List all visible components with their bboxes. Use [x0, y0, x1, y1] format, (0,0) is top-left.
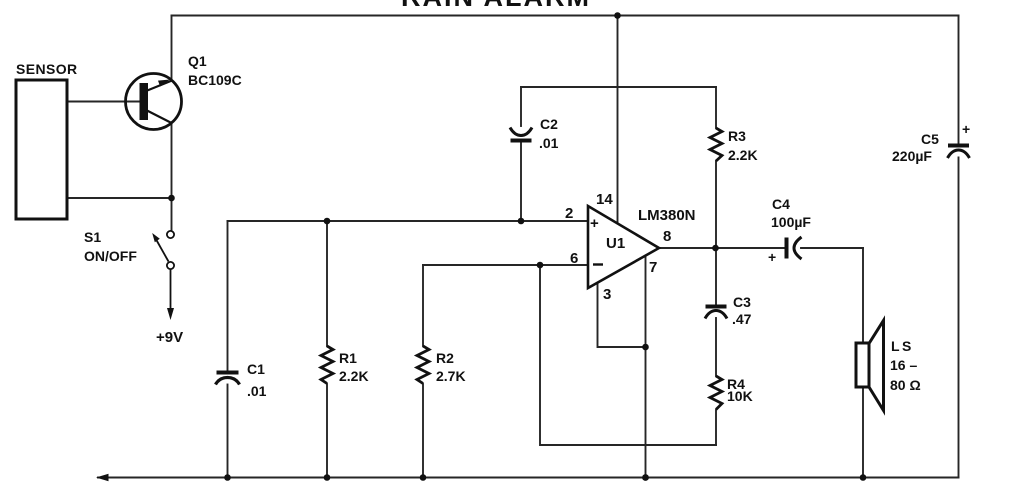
svg-text:C1: C1 [247, 361, 265, 377]
svg-text:+9V: +9V [156, 329, 183, 346]
svg-text:C4: C4 [772, 196, 790, 212]
svg-text:3: 3 [603, 286, 611, 303]
svg-text:80 Ω: 80 Ω [890, 377, 921, 393]
svg-text:2.2K: 2.2K [728, 147, 758, 163]
svg-text:.01: .01 [539, 135, 559, 151]
svg-text:U1: U1 [606, 235, 625, 252]
svg-text:10K: 10K [727, 388, 753, 404]
svg-text:R2: R2 [436, 350, 454, 366]
svg-text:RAIN ALARM: RAIN ALARM [401, 0, 591, 12]
svg-text:.01: .01 [247, 383, 267, 399]
svg-text:2.2K: 2.2K [339, 368, 369, 384]
svg-text:BC109C: BC109C [188, 72, 242, 88]
svg-text:C2: C2 [540, 116, 558, 132]
svg-text:6: 6 [570, 250, 578, 267]
svg-text:LS: LS [891, 338, 914, 354]
svg-text:R1: R1 [339, 350, 357, 366]
svg-text:Q1: Q1 [188, 53, 207, 69]
svg-text:C5: C5 [921, 131, 939, 147]
svg-text:220µF: 220µF [892, 148, 932, 164]
svg-text:C3: C3 [733, 294, 751, 310]
svg-text:2: 2 [565, 205, 573, 222]
svg-text:14: 14 [596, 191, 613, 208]
svg-text:SENSOR: SENSOR [16, 61, 78, 77]
svg-text:100µF: 100µF [771, 214, 811, 230]
svg-text:+: + [768, 249, 776, 265]
svg-text:.47: .47 [732, 311, 752, 327]
svg-text:2.7K: 2.7K [436, 368, 466, 384]
svg-text:LM380N: LM380N [638, 207, 696, 224]
svg-text:+: + [590, 215, 599, 232]
svg-text:+: + [962, 121, 970, 137]
svg-text:8: 8 [663, 228, 671, 245]
svg-text:R3: R3 [728, 128, 746, 144]
svg-text:ON/OFF: ON/OFF [84, 248, 137, 264]
svg-text:16 –: 16 – [890, 357, 917, 373]
svg-text:7: 7 [649, 259, 657, 276]
svg-text:S1: S1 [84, 229, 101, 245]
